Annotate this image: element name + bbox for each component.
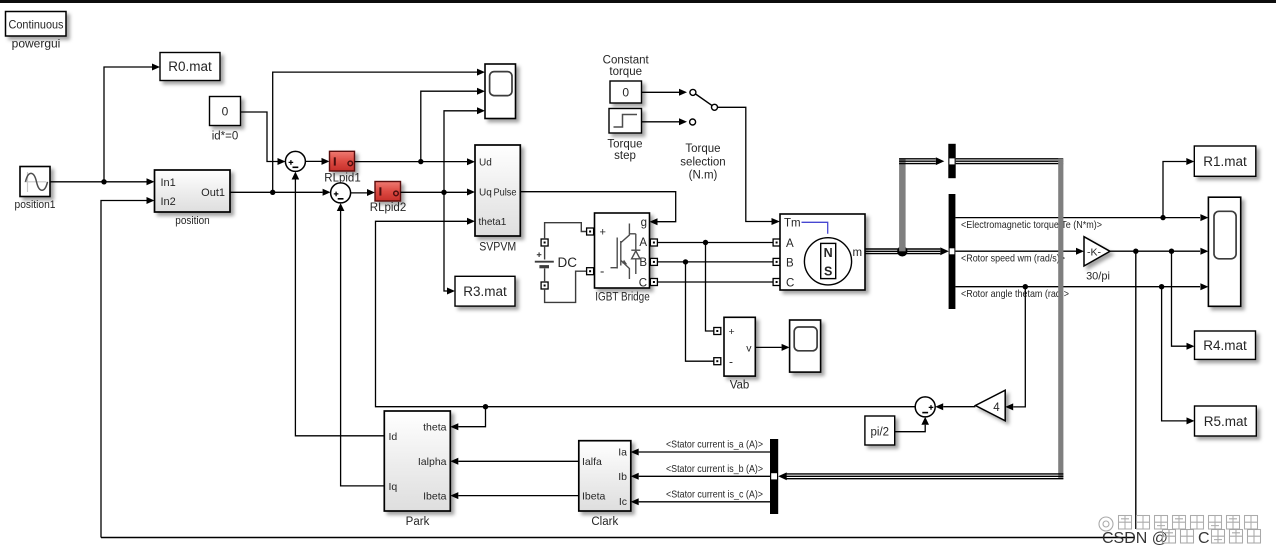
svg-text:g: g <box>641 217 647 229</box>
wire switch to motor Tm <box>718 107 781 225</box>
wire to R4.mat <box>1172 251 1195 350</box>
Park block <box>384 411 450 511</box>
tall bus selector bar <box>949 194 956 309</box>
svg-text:0: 0 <box>222 105 229 119</box>
junction on sine wire <box>101 179 106 184</box>
wire sine to In1 <box>50 178 155 185</box>
wire IGBT B to motor B <box>657 261 773 263</box>
gain 30/pi <box>1084 237 1110 266</box>
svg-text:Clark: Clark <box>591 516 618 528</box>
bus vertical m-junction up <box>899 159 906 252</box>
IGBT + port <box>587 228 594 235</box>
RLpid1 block <box>330 151 355 171</box>
svg-text:R3.mat: R3.mat <box>463 284 507 299</box>
IGBT - port <box>587 268 594 275</box>
wire theta branch down to Park theta <box>450 407 485 431</box>
bus short selector output loop to stator bar <box>956 159 1063 164</box>
svg-text:selection: selection <box>680 157 725 169</box>
wire gain4 out to sum3 <box>935 403 975 410</box>
svg-text:(N.m): (N.m) <box>689 170 718 182</box>
junction thetam to R5 <box>1159 284 1164 289</box>
svg-text:S: S <box>824 265 832 279</box>
svg-text:C: C <box>786 278 794 290</box>
R5.mat block <box>1195 406 1257 436</box>
junction theta to Park <box>483 404 488 409</box>
junction wm to R4 <box>1169 249 1174 254</box>
wire IGBT C to motor C <box>657 281 773 283</box>
scope2 (Vab scope) <box>790 320 821 372</box>
svg-text:4: 4 <box>993 402 1000 414</box>
svg-text:DC: DC <box>558 255 578 270</box>
svg-text:Ialfa: Ialfa <box>582 456 602 468</box>
svg-text:Out1: Out1 <box>201 187 225 199</box>
position subsystem <box>155 170 231 212</box>
svg-text:+: + <box>729 326 735 338</box>
svg-text:CSDN @: CSDN @ <box>1102 530 1168 547</box>
wire DC- to IGBT- <box>545 271 587 302</box>
junction on Out1 wire <box>270 190 275 195</box>
svg-text:pi/2: pi/2 <box>871 426 890 438</box>
wire IGBT A to motor A <box>657 242 773 244</box>
top black bar <box>0 0 1276 3</box>
switch <box>690 89 718 125</box>
scope right <box>1208 197 1240 306</box>
svg-text:Ialpha: Ialpha <box>418 456 447 468</box>
svg-text:-: - <box>600 264 604 279</box>
sum1 <box>285 151 305 171</box>
scope1 (top) <box>485 64 516 119</box>
wire Clark Ialfa to Park Ialpha <box>450 458 579 465</box>
junction on Uq wire <box>441 190 446 195</box>
IGBT Bridge block <box>595 213 650 289</box>
wire SVPVM Pulse to IGBT g <box>520 192 675 226</box>
Vab measurement block <box>714 328 721 335</box>
R3.mat block <box>455 276 515 306</box>
wire In2 feedback (from wm line, bottom left riser) <box>101 197 155 538</box>
wire constant to switch top <box>642 89 688 96</box>
svg-text:torque: torque <box>609 66 642 78</box>
svg-text:Park: Park <box>406 516 430 528</box>
svg-text:R4.mat: R4.mat <box>1203 338 1247 353</box>
svg-text:Ibeta: Ibeta <box>582 490 606 502</box>
svg-text:30/pi: 30/pi <box>1086 271 1110 283</box>
svg-text:In2: In2 <box>161 196 176 208</box>
DC source battery symbol <box>535 246 577 282</box>
svg-text:<Stator current is_b (A)>: <Stator current is_b (A)> <box>666 464 763 475</box>
svg-text:Torque: Torque <box>685 143 720 155</box>
wire stator ic to Clark Ic <box>631 498 770 505</box>
wire gain out to scope in2 <box>1110 248 1208 255</box>
junction wire1 to R1 <box>1160 215 1165 220</box>
wire RLpid1 to SVPVM Ud <box>355 158 476 165</box>
svg-text:theta: theta <box>423 422 447 434</box>
svg-text:Pulse: Pulse <box>494 188 517 199</box>
svg-text:SVPVM: SVPVM <box>479 239 516 253</box>
svg-text:v: v <box>746 342 752 354</box>
short bus selector bar <box>948 144 955 178</box>
svg-text:-: - <box>729 355 733 369</box>
svg-text:Ib: Ib <box>618 471 627 483</box>
IGBT C port <box>650 279 657 286</box>
junction thetam to gain4 <box>1023 284 1028 289</box>
svg-text:C: C <box>1198 530 1210 547</box>
DC source port bottom <box>541 282 548 289</box>
svg-text:Torque: Torque <box>607 139 642 151</box>
wire stator ib to Clark Ib <box>631 473 770 480</box>
wire1 Te: tall bar to scope <box>955 214 1208 221</box>
svg-text:Iq: Iq <box>389 481 398 493</box>
wire A junction to Vab + <box>706 243 714 332</box>
IGBT A port <box>650 239 657 246</box>
junction on A wire <box>703 240 708 245</box>
motor A port <box>773 239 780 246</box>
svg-text:position1: position1 <box>15 199 56 211</box>
sine source position1 <box>20 167 50 197</box>
wire Uq branch up to scope in3 <box>444 107 485 192</box>
wire id*=0 to sum1 <box>241 112 286 165</box>
bus vertical right side <box>1058 159 1063 479</box>
Torque step block <box>609 109 642 134</box>
svg-text:<Stator current is_a (A)>: <Stator current is_a (A)> <box>666 439 763 450</box>
svg-text:<Stator current is_c (A)>: <Stator current is_c (A)> <box>666 490 763 501</box>
motor B port <box>773 258 780 265</box>
wire RLpid2 to SVPVM Uq <box>401 189 476 196</box>
svg-text:Id: Id <box>389 431 398 443</box>
svg-text:powergui: powergui <box>12 37 61 51</box>
svg-text:RLpid2: RLpid2 <box>370 202 406 214</box>
wire step to switch bottom <box>642 118 688 125</box>
svg-text:step: step <box>614 150 636 162</box>
bus horizontal into short selector <box>899 159 936 164</box>
stator currents selector bar <box>770 439 778 514</box>
svg-text:R1.mat: R1.mat <box>1203 154 1247 169</box>
IGBT B port <box>650 258 657 265</box>
SVPVM subsystem <box>475 145 520 236</box>
wire3 thetam: tall bar to scope in3 <box>955 283 1208 290</box>
svg-text:R0.mat: R0.mat <box>168 59 212 74</box>
bus bottom horizontal to stator bar <box>787 474 1064 479</box>
wire to R5.mat <box>1162 287 1195 425</box>
svg-text:Ic: Ic <box>619 496 627 508</box>
svg-text:Vab: Vab <box>730 380 750 392</box>
svg-text:Uq: Uq <box>479 188 492 199</box>
svg-text:0: 0 <box>622 86 629 100</box>
Constant torque block <box>610 81 642 103</box>
R1.mat block <box>1194 146 1256 176</box>
svg-text:Ud: Ud <box>479 158 492 169</box>
wire Out1 branch up to scope in1 <box>273 69 485 193</box>
watermark line1 <box>1099 517 1113 531</box>
wire bottom feedback horizontal <box>101 537 1135 539</box>
svg-text:B: B <box>786 257 794 269</box>
R4.mat block <box>1195 331 1256 359</box>
wire Clark Ibeta to Park Ibeta <box>450 492 579 499</box>
wire Iq feedback into sum2 bottom <box>337 203 385 486</box>
wire Out1 to sum2 <box>230 189 331 196</box>
wire Id feedback into sum1 bottom <box>292 172 385 436</box>
wire2 wm: tall bar to gain <box>955 248 1084 255</box>
sum3 (mirrored) <box>915 397 935 417</box>
svg-text:-K-: -K- <box>1087 246 1102 258</box>
junction on Ud wire <box>418 159 423 164</box>
svg-text:<Rotor speed wm (rad/s)>: <Rotor speed wm (rad/s)> <box>961 254 1065 265</box>
wire sum1 to RLpid1 <box>305 158 329 165</box>
wire theta: sum3 out to SVPVM theta1 <box>376 218 916 407</box>
id*=0 constant block <box>210 97 241 126</box>
wire sum2 to RLpid2 <box>351 189 375 196</box>
wire wm feedback down (ends under watermark) <box>1135 251 1137 529</box>
svg-text:Constant: Constant <box>603 55 650 67</box>
wire Vab to scope2 <box>755 344 789 351</box>
wire stator ia to Clark Ia <box>631 449 770 456</box>
junction wm to In2 feedback <box>1133 249 1138 254</box>
R0.mat block <box>160 53 220 81</box>
wire to R1.mat <box>1163 158 1194 218</box>
bus m output to tall selector (triple line) <box>865 249 940 254</box>
svg-text:Continuous: Continuous <box>9 18 64 32</box>
powergui block <box>6 12 67 37</box>
svg-text:R5.mat: R5.mat <box>1204 414 1248 429</box>
svg-text:m: m <box>853 247 863 259</box>
svg-text:N: N <box>824 246 833 260</box>
sum2 <box>331 183 351 203</box>
junction on B wire <box>683 259 688 264</box>
DC source port top <box>541 239 548 246</box>
bus junction dot at m <box>897 246 907 256</box>
svg-text:A: A <box>639 237 647 249</box>
svg-text:IGBT Bridge: IGBT Bridge <box>595 292 650 304</box>
svg-text:Ibeta: Ibeta <box>423 490 447 502</box>
motor C port <box>773 279 780 286</box>
svg-text:C: C <box>639 277 647 289</box>
svg-text:Ia: Ia <box>618 446 627 458</box>
wire thetam down to gain4 <box>1005 287 1025 411</box>
svg-text:theta1: theta1 <box>479 217 507 228</box>
Clark block <box>579 441 631 511</box>
wire Ud branch up to scope in2 <box>421 88 485 162</box>
PMSM motor block <box>780 214 865 290</box>
wire Uq branch down to R3.mat <box>444 192 455 294</box>
wire pi/2 to sum3 bottom <box>895 417 929 432</box>
wire DC+ to IGBT+ <box>545 223 587 239</box>
svg-text:position: position <box>175 215 210 227</box>
svg-text:Tm: Tm <box>784 218 801 230</box>
svg-text:<Electromagnetic torque Te (N*: <Electromagnetic torque Te (N*m)> <box>961 220 1102 231</box>
pi/2 constant block <box>865 416 895 445</box>
svg-text:id*=0: id*=0 <box>212 131 239 143</box>
svg-text:A: A <box>786 238 794 250</box>
wire B junction to Vab - <box>686 262 714 361</box>
svg-text:<Rotor angle thetam (rad)>: <Rotor angle thetam (rad)> <box>961 289 1069 300</box>
RLpid2 block <box>375 182 401 202</box>
svg-text:+: + <box>600 227 606 239</box>
svg-text:In1: In1 <box>161 177 176 189</box>
wire junction up to R0.mat <box>104 64 160 182</box>
IGBT internal icon <box>611 224 641 280</box>
gain 4 (mirrored) <box>975 390 1005 421</box>
